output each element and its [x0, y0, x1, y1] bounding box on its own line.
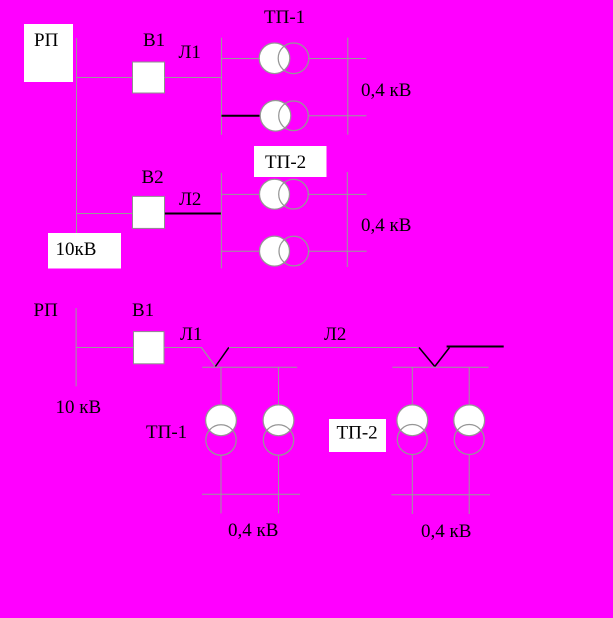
transformer T3a (ТП-1 left, vertical) [206, 405, 237, 455]
bus РП vertical [76, 38, 78, 233]
stub below bus (right) [468, 495, 470, 514]
wire РП bus to В2 [76, 213, 133, 215]
wire drop to transformer T3b [278, 367, 280, 405]
wire transformer T1a to right bus [309, 58, 367, 60]
box ТП-2 label (bottom) [329, 419, 386, 452]
transformer T2a (ТП-2 upper) [260, 179, 309, 209]
svg-text:ТП-2: ТП-2 [337, 423, 378, 444]
transformer T3b (ТП-1 right, vertical) [263, 405, 294, 455]
svg-text:ТП-2: ТП-2 [265, 152, 306, 173]
wire РП to В1 [76, 77, 133, 79]
wire В2 to ТП-2 bus (line Л2, black) [165, 213, 222, 215]
wire bus to transformer T1b (black) [222, 115, 260, 117]
wire transformer T2a to right bus [309, 193, 367, 195]
wire bus to transformer T2a [221, 193, 259, 195]
wire T3b to low bus [278, 455, 280, 494]
bus ТП-2 left [220, 173, 222, 269]
bus ТП-1 right (0,4 кВ) [347, 38, 349, 135]
bus ТП-1 left [221, 38, 223, 135]
svg-text:Л1: Л1 [180, 324, 202, 345]
svg-text:ТП-1: ТП-1 [146, 422, 187, 443]
wire T3a to low bus [220, 455, 222, 494]
box 10кВ label [48, 233, 121, 269]
bus ТП-2 top (bottom scheme) [392, 366, 488, 368]
stub below bus (left) [411, 495, 413, 514]
svg-text:Л2: Л2 [324, 324, 346, 345]
breaker В1 box (bottom) [134, 332, 165, 364]
svg-text:Л1: Л1 [179, 42, 201, 63]
bus РП vertical (bottom) [75, 308, 77, 386]
wire T4b to low bus [468, 455, 470, 495]
wire transformer T2b to right bus [309, 250, 367, 252]
bus ТП-2 bottom 0,4 кВ [391, 494, 490, 496]
svg-text:0,4 кВ: 0,4 кВ [361, 215, 411, 236]
breaker В2 box [133, 196, 165, 228]
breaker В1 box [133, 62, 165, 93]
transformer T4a (ТП-2 left, vertical) [397, 405, 428, 455]
wire black reserve line [447, 346, 504, 348]
switch blade right (black diagonal) [435, 348, 450, 367]
wire T4a to low bus [411, 455, 413, 495]
wire drop to transformer T4a [411, 367, 413, 405]
wire drop to transformer T3a [220, 367, 222, 405]
wire bus to transformer T2b [221, 250, 260, 252]
wire РП to В1 (bottom) [76, 347, 133, 349]
transformer T1a (ТП-1 upper) [259, 43, 309, 74]
svg-text:РП: РП [34, 300, 59, 321]
wire Л1 drop diagonal (gray) [201, 348, 215, 367]
svg-text:10 кВ: 10 кВ [56, 397, 102, 418]
wire Л2 drop diagonal (black, open point ТП-2) [419, 348, 435, 367]
transformer T2b (ТП-2 lower) [260, 236, 309, 266]
svg-text:В2: В2 [142, 167, 164, 188]
svg-text:В1: В1 [132, 300, 154, 321]
wire В1 to ТП-1 bus (line Л1) [165, 77, 223, 79]
stub below bus (right) [278, 494, 280, 513]
bus ТП-1 bottom 0,4 кВ [202, 493, 300, 495]
wire В1 to sectionalizing point (line Л1) [164, 347, 202, 349]
svg-text:РП: РП [34, 30, 59, 51]
switch blade left (black diagonal, open point ТП-1) [215, 347, 229, 366]
svg-text:ТП-1: ТП-1 [264, 7, 305, 28]
wire line Л2 (gray) [229, 347, 418, 349]
svg-text:В1: В1 [143, 30, 165, 51]
svg-text:0,4 кВ: 0,4 кВ [421, 521, 471, 542]
svg-text:Л2: Л2 [179, 189, 201, 210]
wire bus to transformer T1a [222, 58, 260, 60]
bus ТП-1 top (bottom scheme) [202, 366, 297, 368]
svg-text:0,4 кВ: 0,4 кВ [228, 520, 278, 541]
box РП (distribution point, top scheme) [24, 24, 73, 82]
stub below bus (left) [220, 494, 222, 513]
box ТП-2 label [254, 146, 327, 177]
wire transformer T1b to right bus [309, 115, 367, 117]
svg-text:0,4 кВ: 0,4 кВ [361, 80, 411, 101]
svg-text:10кВ: 10кВ [56, 239, 97, 260]
transformer T1b (ТП-1 lower) [260, 101, 308, 132]
wire drop to transformer T4b [468, 367, 470, 405]
transformer T4b (ТП-2 right, vertical) [454, 405, 485, 455]
bus ТП-2 right (0,4 кВ) [346, 172, 348, 267]
